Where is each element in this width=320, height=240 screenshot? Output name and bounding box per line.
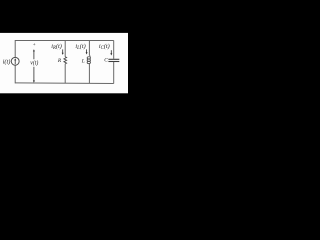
- wire R branch lower segment: [64, 64, 66, 83]
- svg-text:+: +: [32, 42, 36, 48]
- svg-text:C: C: [104, 58, 108, 64]
- capacitor C top plate: [108, 58, 119, 60]
- current arrow iR (down): [62, 49, 64, 55]
- current arrow iC (down): [110, 50, 112, 55]
- current source I (circle): [11, 57, 19, 65]
- top rail wire: [15, 40, 114, 42]
- svg-text:iL(t): iL(t): [75, 43, 85, 51]
- voltage arrow v(t) upper segment with up arrowhead: [33, 49, 35, 59]
- wire left branch lower segment: [14, 65, 16, 83]
- svg-text:i(t): i(t): [3, 58, 11, 65]
- svg-text:v(t): v(t): [30, 59, 38, 66]
- current arrow iL (down): [86, 49, 88, 54]
- svg-text:L: L: [81, 58, 85, 64]
- svg-text:R: R: [57, 58, 62, 64]
- wire left branch upper segment: [14, 40, 16, 57]
- wire C branch lower segment: [113, 62, 115, 84]
- wire L branch upper segment: [88, 41, 90, 56]
- white figure band: [0, 33, 128, 93]
- bottom rail wire: [15, 82, 114, 85]
- wire L branch lower segment: [88, 64, 90, 83]
- resistor R zigzag: [64, 57, 67, 64]
- wire C branch upper segment: [113, 41, 115, 59]
- capacitor C bottom plate: [108, 61, 119, 63]
- svg-text:iC(t): iC(t): [99, 43, 110, 51]
- current source arrow (points up): [14, 58, 16, 64]
- inductor L coil: [87, 55, 90, 63]
- wire R branch upper segment: [64, 41, 66, 57]
- voltage arrow v(t) lower segment with down arrowhead: [33, 67, 35, 83]
- svg-text:iR(t): iR(t): [51, 43, 62, 51]
